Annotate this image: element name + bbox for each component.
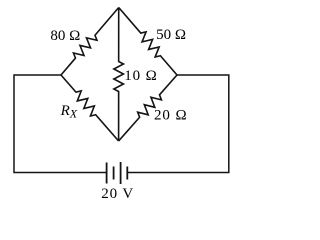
wire right loop: right node to right rail down to battery negative [127, 75, 229, 173]
battery V1 20V: plate long 1 [106, 163, 108, 184]
resistor 50 ohm (top-right bridge arm) [119, 8, 177, 76]
svg-text:80 Ω: 80 Ω [50, 28, 80, 44]
resistor 10 ohm (center galvanometer arm) [114, 8, 124, 142]
svg-text:20 V: 20 V [101, 186, 134, 202]
svg-text:50 Ω: 50 Ω [156, 27, 186, 43]
svg-text:10 Ω: 10 Ω [124, 68, 158, 84]
battery V1 20V: plate short 2 [126, 167, 128, 180]
svg-text:RX: RX [60, 103, 78, 120]
wire left loop: left node to left rail down to battery positive [14, 75, 107, 173]
resistor RX (bottom-left bridge arm) [61, 75, 119, 141]
resistor 80 ohm (top-left bridge arm) [61, 8, 119, 76]
svg-text:20 Ω: 20 Ω [154, 108, 188, 124]
battery V1 20V: plate long 2 [120, 162, 122, 184]
battery V1 20V: plate short 1 [113, 167, 115, 180]
resistor 20 ohm (bottom-right bridge arm) [119, 75, 177, 141]
